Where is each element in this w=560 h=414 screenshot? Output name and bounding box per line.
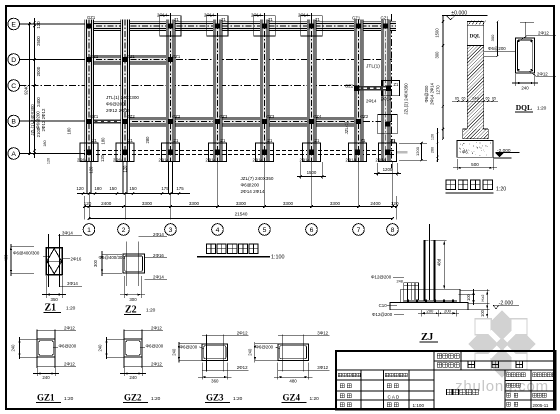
- 工程名称 label: [437, 363, 442, 368]
- svg-text:3Φ14: 3Φ14: [62, 231, 73, 236]
- svg-text:180: 180: [67, 127, 72, 135]
- svg-text:2005-11: 2005-11: [533, 403, 549, 408]
- svg-text:240: 240: [247, 348, 252, 356]
- svg-text:280: 280: [145, 136, 150, 144]
- svg-text:GZ1: GZ1: [37, 392, 55, 402]
- svg-text:2Φ12: 2Φ12: [64, 362, 75, 367]
- svg-text:1:20: 1:20: [151, 396, 161, 402]
- witness lines to main dim: [217, 162, 219, 208]
- svg-text:-2.000: -2.000: [499, 300, 514, 306]
- detail GZ4: column section: [278, 344, 308, 361]
- left total dim 9240: [29, 22, 31, 155]
- grid bubbles 1-8: [83, 224, 95, 236]
- 办公楼: [468, 361, 475, 368]
- 规划单位 label: [437, 354, 442, 359]
- svg-text:1270: 1270: [436, 85, 441, 95]
- svg-text:100: 100: [466, 293, 471, 301]
- svg-text:GZ2: GZ2: [360, 114, 369, 119]
- DQL dim 240: [515, 74, 517, 86]
- DQL labels: [520, 21, 534, 23]
- svg-text:C10: C10: [379, 303, 388, 308]
- svg-text:120: 120: [84, 201, 92, 206]
- strip footing wall row D: [85, 55, 176, 64]
- strip detail wall: [466, 22, 468, 130]
- svg-text:240: 240: [42, 375, 50, 380]
- wall line 5: [260, 20, 269, 162]
- Z1 dim 350: [45, 276, 47, 298]
- svg-text:1500: 1500: [307, 170, 317, 175]
- ZJ dim 48d: [435, 240, 447, 242]
- svg-text:GZ2: GZ2: [172, 114, 181, 119]
- svg-text:120: 120: [47, 158, 51, 164]
- GZ3 bottom dim: [201, 363, 203, 380]
- svg-text:B: B: [11, 118, 16, 125]
- svg-text:DQL: DQL: [516, 103, 532, 112]
- svg-text:480: 480: [289, 379, 297, 384]
- columns row B: [86, 119, 91, 124]
- svg-text:3300: 3300: [142, 201, 153, 206]
- svg-text:248: 248: [397, 280, 403, 284]
- detail Z1: pad with diagonals: [46, 248, 62, 275]
- svg-text:200: 200: [426, 308, 434, 313]
- strip footing wall row B: [121, 117, 364, 126]
- svg-text:Φ6@200: Φ6@200: [424, 85, 429, 103]
- ZJ pedestal: [401, 289, 460, 302]
- detail Z2: column: [123, 254, 145, 273]
- svg-text:Z1: Z1: [391, 138, 397, 143]
- svg-text:120: 120: [36, 21, 41, 29]
- svg-text:2Φ14: 2Φ14: [366, 99, 377, 104]
- svg-text:3300: 3300: [236, 201, 247, 206]
- svg-text:Z1: Z1: [221, 17, 227, 22]
- svg-text:Z1: Z1: [174, 138, 180, 143]
- svg-text:2Φ12: 2Φ12: [537, 72, 548, 77]
- beam JZL(1) row B lines 1-2 (dark band): [85, 119, 123, 123]
- pad footings row A: [80, 143, 98, 162]
- svg-text:3Φ12: 3Φ12: [317, 365, 328, 370]
- svg-text:180: 180: [94, 186, 102, 191]
- svg-text:2Φ14 2Φ14: 2Φ14 2Φ14: [241, 189, 265, 194]
- svg-text:2Φ14: 2Φ14: [204, 12, 215, 17]
- wall line 6: [307, 20, 316, 162]
- wall line 1: [85, 20, 94, 162]
- svg-text:Φ6@200: Φ6@200: [241, 183, 260, 188]
- elevation -2.000 strip: [493, 157, 512, 159]
- svg-text:9240: 9240: [24, 85, 29, 95]
- svg-text:2Φ14: 2Φ14: [251, 12, 262, 17]
- svg-text:JZL(2) 240X350: JZL(2) 240X350: [404, 83, 409, 115]
- svg-text:Φ6@400/300: Φ6@400/300: [13, 251, 40, 256]
- svg-text:360: 360: [211, 379, 219, 384]
- svg-text:1:20: 1:20: [66, 306, 76, 312]
- svg-text:120: 120: [391, 201, 399, 206]
- wall stubs below row A: [86, 162, 88, 195]
- dim cluster right of plan (1200/120/260): [399, 142, 427, 144]
- small dim row under pads: [77, 193, 190, 195]
- wall line 4: [213, 20, 222, 162]
- svg-text:180: 180: [43, 140, 47, 146]
- strip left dims: [442, 16, 444, 140]
- svg-text:180: 180: [101, 137, 106, 145]
- strip title: [446, 180, 456, 190]
- svg-text:2Φ16: 2Φ16: [153, 253, 164, 258]
- svg-text:2: 2: [122, 227, 126, 234]
- strip dim 500: [456, 159, 458, 170]
- svg-text:1500: 1500: [435, 28, 440, 38]
- svg-text:Φ12@200: Φ12@200: [371, 275, 392, 280]
- svg-text:Z1: Z1: [315, 17, 321, 22]
- wall top hatch band: [469, 21, 472, 25]
- svg-text:Φ6@200: Φ6@200: [59, 343, 77, 348]
- svg-text:8: 8: [391, 227, 395, 234]
- total dim 21540: [89, 218, 393, 220]
- svg-text:2Φ14: 2Φ14: [300, 158, 311, 163]
- GZ1 bottom dim: [36, 359, 38, 376]
- detail GZ2: column section: [124, 339, 142, 357]
- main title 基础平面图 1:100: [207, 244, 216, 253]
- Z1 dim 400 left: [11, 245, 34, 247]
- svg-text:Z1: Z1: [268, 138, 274, 143]
- svg-text:5: 5: [263, 227, 267, 234]
- svg-text:Z1: Z1: [221, 138, 227, 143]
- watermark logo: [468, 310, 535, 377]
- svg-text:65: 65: [455, 97, 459, 101]
- step dim 65 65 240 65 65: [452, 100, 498, 102]
- svg-text:1:20: 1:20: [310, 396, 320, 402]
- svg-text:2100: 2100: [36, 127, 41, 137]
- svg-text:2Φ12 2Φ14: 2Φ12 2Φ14: [106, 108, 130, 113]
- svg-text:2400: 2400: [36, 97, 41, 107]
- svg-text:H≥2: H≥2: [481, 295, 485, 302]
- svg-text:7: 7: [357, 227, 361, 234]
- svg-text:C A D: C A D: [388, 394, 400, 399]
- DQL section: [516, 38, 535, 73]
- svg-text:300: 300: [93, 259, 98, 267]
- main dim chain 2400/3300: [84, 206, 397, 208]
- svg-text:Z2: Z2: [125, 305, 137, 316]
- detail Z2: wall lines: [126, 242, 128, 287]
- svg-text:Z1: Z1: [361, 138, 367, 143]
- left grid texts: [338, 373, 342, 377]
- svg-text:Φ6: Φ6: [462, 150, 468, 155]
- svg-text:3Φ12: 3Φ12: [317, 330, 328, 335]
- svg-text:Z1: Z1: [92, 138, 98, 143]
- svg-text:65: 65: [492, 97, 496, 101]
- svg-text:2Φ14: 2Φ14: [157, 12, 168, 17]
- svg-text:Φ6@200: Φ6@200: [488, 46, 506, 51]
- svg-text:150: 150: [129, 186, 137, 191]
- svg-text:2400: 2400: [101, 201, 112, 206]
- svg-text:A: A: [11, 151, 16, 158]
- svg-text:120: 120: [431, 134, 435, 140]
- svg-text:Z1: Z1: [394, 82, 400, 87]
- svg-text:2400: 2400: [370, 201, 381, 206]
- svg-text:1:20: 1:20: [537, 106, 547, 112]
- svg-text:500: 500: [471, 162, 479, 167]
- svg-text:65: 65: [462, 97, 466, 101]
- GZ2 left dim: [107, 338, 125, 340]
- svg-text:JTL(1) 240X300: JTL(1) 240X300: [106, 95, 139, 100]
- svg-text:2Φ12: 2Φ12: [64, 326, 75, 331]
- svg-text:JZL(7) 240X350: JZL(7) 240X350: [241, 176, 274, 181]
- svg-text:1:20: 1:20: [146, 308, 156, 314]
- svg-text:Z1: Z1: [174, 17, 180, 22]
- svg-text:GZ3: GZ3: [266, 114, 275, 119]
- svg-text:Φ6@200: Φ6@200: [36, 111, 41, 129]
- svg-text:2Φ14: 2Φ14: [346, 158, 357, 163]
- svg-text:2Φ14: 2Φ14: [113, 158, 124, 163]
- svg-text:1:20: 1:20: [496, 187, 506, 193]
- svg-text:21540: 21540: [235, 212, 248, 217]
- GZ4 bottom dim: [277, 363, 279, 380]
- svg-text:240: 240: [11, 344, 16, 352]
- GZ3 left dim: [179, 343, 202, 345]
- svg-text:2Φ14: 2Φ14: [159, 158, 170, 163]
- svg-text:1:20: 1:20: [233, 396, 243, 402]
- ZJ right dims: [458, 294, 475, 296]
- wall line 3: [166, 20, 175, 162]
- svg-text:2Φ16: 2Φ16: [71, 257, 82, 262]
- svg-text:6: 6: [310, 227, 314, 234]
- Z2 dim 300 bottom: [123, 276, 125, 298]
- svg-text:2Φ14: 2Φ14: [381, 97, 392, 102]
- svg-text:2Φ12: 2Φ12: [538, 31, 549, 36]
- svg-text:3300: 3300: [330, 201, 341, 206]
- svg-text:1:20: 1:20: [64, 396, 74, 402]
- ZJ bottom rebar: [403, 300, 457, 302]
- detail GZ3: column section: [202, 344, 228, 361]
- title block: [336, 351, 556, 410]
- svg-text:ZJ: ZJ: [421, 332, 433, 343]
- right section texts: [507, 373, 511, 377]
- svg-text:Z1: Z1: [128, 138, 134, 143]
- pad width dim 1500 (line 6): [300, 162, 302, 179]
- svg-text:GZ2: GZ2: [124, 392, 142, 402]
- svg-text:GZ1: GZ1: [90, 114, 99, 119]
- svg-text:-2.000: -2.000: [497, 148, 511, 154]
- svg-text:300: 300: [435, 51, 440, 59]
- svg-text:GZ1: GZ1: [127, 54, 136, 59]
- svg-text:2Φ14 2Φ14: 2Φ14 2Φ14: [430, 82, 435, 104]
- svg-text:350: 350: [51, 297, 59, 302]
- svg-text:2Φ12: 2Φ12: [151, 326, 162, 331]
- svg-text:Φ6@200: Φ6@200: [255, 344, 273, 349]
- svg-text:3300: 3300: [283, 201, 294, 206]
- svg-text:240: 240: [172, 348, 177, 356]
- wall steps: [463, 128, 468, 130]
- ZJ main bars: [424, 240, 426, 301]
- hidden beam JTL(7) row A: [84, 150, 397, 152]
- svg-text:GZ2: GZ2: [345, 84, 354, 89]
- svg-text:Φ6@200: Φ6@200: [180, 344, 198, 349]
- svg-text:150: 150: [109, 186, 117, 191]
- GZ4 left dim: [255, 343, 278, 345]
- svg-text:E: E: [11, 21, 16, 28]
- svg-text:1: 1: [87, 227, 91, 234]
- svg-text:DQL: DQL: [470, 35, 480, 40]
- svg-text:C: C: [11, 83, 16, 90]
- svg-text:JTL(1): JTL(1): [366, 64, 380, 70]
- grid circles A-E: [8, 18, 20, 30]
- svg-text:2Φ14: 2Φ14: [153, 232, 164, 237]
- svg-text:2Φ12: 2Φ12: [237, 365, 248, 370]
- svg-text:2Φ14: 2Φ14: [253, 158, 264, 163]
- left dim chain: [34, 18, 36, 158]
- svg-text:GZ4: GZ4: [283, 392, 301, 402]
- Z2 labels: [139, 236, 167, 238]
- ZJ dims 200 200: [420, 310, 422, 317]
- pad width dim 1200 (line 8): [377, 163, 379, 176]
- svg-text:Z1: Z1: [45, 303, 57, 314]
- GZ1 stirrup label: [53, 346, 58, 348]
- svg-text:100: 100: [480, 309, 485, 317]
- svg-text:300: 300: [129, 297, 137, 302]
- ZJ dowel bars: [403, 283, 405, 300]
- svg-text:2000: 2000: [36, 66, 41, 76]
- svg-text:Φ6@200: Φ6@200: [146, 343, 164, 348]
- strip footing block: [457, 140, 493, 157]
- label phi6@200: [484, 51, 516, 53]
- svg-text:GZ1: GZ1: [90, 54, 99, 59]
- svg-text:1200: 1200: [415, 146, 420, 156]
- svg-text:Z1: Z1: [315, 138, 321, 143]
- svg-text:4: 4: [216, 227, 220, 234]
- ZJ slab: [390, 303, 468, 310]
- strip right small dim 300: [484, 55, 498, 57]
- svg-text:175: 175: [176, 186, 184, 191]
- svg-text:240: 240: [521, 86, 529, 91]
- svg-text:D: D: [11, 57, 16, 64]
- columns row D: [86, 57, 91, 62]
- svg-text:GZ1: GZ1: [381, 16, 390, 21]
- svg-text:GZ4: GZ4: [313, 114, 322, 119]
- svg-text:240: 240: [129, 375, 137, 380]
- wall hatch: [467, 30, 484, 145]
- columns row E: [86, 23, 91, 28]
- svg-text:GZ3: GZ3: [206, 392, 224, 402]
- svg-text:260: 260: [431, 147, 435, 153]
- svg-text:2Φ14: 2Φ14: [376, 158, 387, 163]
- svg-text:Φ12@200: Φ12@200: [372, 312, 393, 317]
- svg-text:GZ3: GZ3: [219, 114, 228, 119]
- svg-text:2Φ12: 2Φ12: [151, 362, 162, 367]
- wall line 2: [121, 20, 130, 162]
- detail GZ1: column section: [37, 339, 55, 357]
- wall line 7: [354, 20, 363, 162]
- svg-text:2500: 2500: [36, 36, 41, 46]
- svg-text:3Φ14: 3Φ14: [67, 281, 78, 286]
- svg-text:1200: 1200: [383, 167, 393, 172]
- svg-text:120: 120: [100, 154, 105, 162]
- svg-text:3300: 3300: [189, 201, 200, 206]
- wall line 8 (eccentric): [381, 20, 390, 162]
- strip footing wall row E: [85, 22, 397, 31]
- pad footings Z1 on row E (cols 3-6): [160, 16, 181, 36]
- svg-text:JZL(1): JZL(1): [344, 121, 349, 134]
- svg-text:175: 175: [161, 186, 169, 191]
- pad footing row B col 8: [378, 114, 397, 133]
- svg-text:2Φ14: 2Φ14: [206, 158, 217, 163]
- svg-text:1:100: 1:100: [271, 254, 285, 260]
- grid axis lines: [19, 23, 85, 25]
- ZJ elevation -2.000: [493, 305, 498, 308]
- svg-text:GZ1: GZ1: [87, 15, 96, 20]
- svg-text:3: 3: [169, 227, 173, 234]
- GZ2 stirrup label: [140, 346, 145, 348]
- beam stub right of pad 8: [397, 151, 408, 153]
- svg-text:GZ1: GZ1: [352, 16, 361, 21]
- GZ2 bottom dim: [123, 359, 125, 376]
- svg-text:400: 400: [4, 254, 9, 262]
- svg-text:GZ1: GZ1: [172, 54, 181, 59]
- svg-text:300: 300: [490, 34, 495, 41]
- beam/wall row C lines 7-8 with pad at col 8: [382, 81, 400, 96]
- svg-text:48d: 48d: [437, 258, 442, 266]
- svg-text:Φ6@200: Φ6@200: [106, 102, 125, 107]
- svg-text:240: 240: [98, 344, 103, 352]
- Z1 labels: [58, 235, 82, 237]
- svg-text:65: 65: [486, 97, 490, 101]
- centre cell 基础平面图: [447, 389, 453, 395]
- svg-text:Z1: Z1: [268, 17, 274, 22]
- svg-text:2Φ14: 2Φ14: [77, 158, 88, 163]
- Z2 dim 300 left: [102, 253, 122, 255]
- detail Z1: wall lines: [48, 234, 50, 287]
- svg-text:GZ2: GZ2: [127, 114, 136, 119]
- svg-text:200: 200: [444, 308, 452, 313]
- GZ1 left dim: [20, 338, 38, 340]
- svg-text:2Φ14: 2Φ14: [153, 274, 164, 279]
- svg-text:2Φ12 2Φ12: 2Φ12 2Φ12: [41, 108, 46, 131]
- svg-text:120: 120: [76, 186, 84, 191]
- svg-text:1:100: 1:100: [413, 403, 425, 408]
- svg-text:2Φ14: 2Φ14: [298, 12, 309, 17]
- svg-text:240: 240: [472, 96, 479, 101]
- svg-text:2Φ12: 2Φ12: [237, 330, 248, 335]
